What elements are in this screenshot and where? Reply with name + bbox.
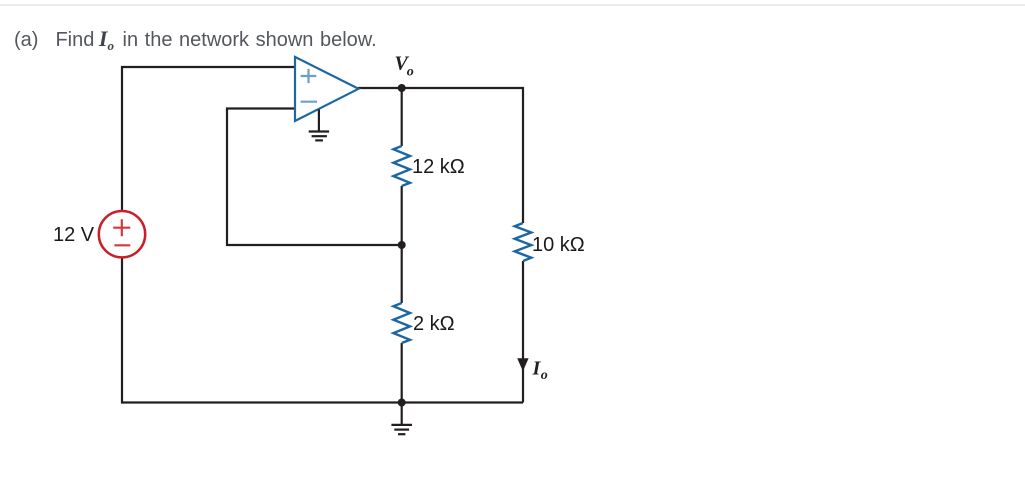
resistor R2 10 kOhm bbox=[515, 223, 532, 261]
wire: bottom rail bbox=[121, 401, 523, 403]
ground at bottom bbox=[391, 403, 412, 435]
label V_o bbox=[395, 53, 414, 80]
wire: right rail from 10k to bottom rail bbox=[522, 261, 524, 403]
wire: V_o node down to 12k bbox=[401, 88, 403, 146]
node bottom dot bbox=[398, 399, 406, 407]
top divider line bbox=[0, 4, 1025, 6]
wire: 12k to middle node bbox=[401, 186, 403, 245]
resistor R3 2 kOhm bbox=[393, 303, 410, 343]
problem statement text bbox=[14, 28, 377, 51]
node middle dot bbox=[398, 241, 406, 249]
plus sign of source bbox=[113, 219, 130, 236]
wire: 2k down to bottom node bbox=[401, 343, 403, 403]
resistor R1 12 kOhm bbox=[393, 146, 410, 186]
op-amp - input sign bbox=[301, 101, 318, 103]
wire: top from left rail to op-amp + input bbox=[121, 66, 295, 68]
wire: op-amp output to V_o node and right rail down to 10k bbox=[358, 88, 523, 223]
svg-text:12 V: 12 V bbox=[53, 224, 95, 246]
arrow I_o bbox=[517, 358, 528, 371]
svg-text:o: o bbox=[541, 368, 548, 383]
svg-text:12 kΩ: 12 kΩ bbox=[412, 156, 465, 178]
op-amp U1 bbox=[295, 57, 359, 121]
ground at op-amp bbox=[309, 110, 329, 141]
wire: feedback from op-amp - input to middle node bbox=[227, 109, 399, 246]
wire: left rail lower segment bbox=[121, 257, 123, 403]
op-amp + input sign bbox=[301, 69, 317, 83]
node V_o dot bbox=[398, 84, 406, 92]
label I_o bbox=[532, 357, 548, 383]
svg-text:10 kΩ: 10 kΩ bbox=[532, 234, 585, 256]
wire: middle node down to 2k bbox=[401, 245, 403, 303]
svg-text:o: o bbox=[407, 65, 414, 80]
voltage source V1 12 V bbox=[99, 211, 145, 257]
minus sign of source bbox=[114, 244, 130, 246]
wire: left rail upper segment bbox=[121, 66, 123, 211]
svg-text:2 kΩ: 2 kΩ bbox=[413, 313, 455, 335]
